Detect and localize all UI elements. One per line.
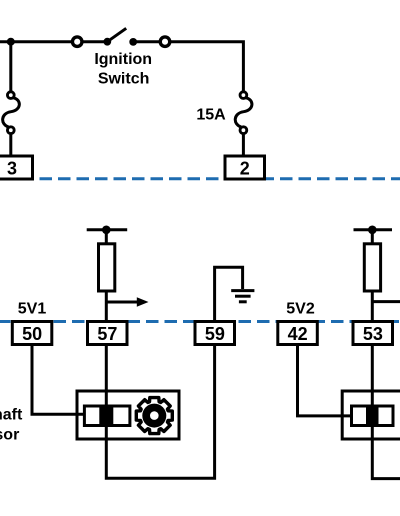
resistor R2 — [364, 244, 380, 291]
wire: resistor R2 to pin 53 — [371, 291, 374, 322]
wire: power rail to resistor R2 — [371, 230, 374, 245]
svg-text:53: 53 — [363, 324, 383, 344]
connector pin box 53 — [353, 322, 393, 345]
svg-text:59: 59 — [205, 324, 225, 344]
svg-text:5V2: 5V2 — [286, 301, 315, 318]
fuse F2 bottom circle — [240, 127, 247, 134]
ignition switch pole dot right — [129, 38, 137, 46]
resistor R1 — [99, 244, 115, 291]
fuse F2 squiggle — [235, 98, 252, 127]
sensor 1 element black cell — [99, 405, 113, 428]
dashed ECU boundary line row 2 — [0, 320, 400, 323]
svg-text:Sensor: Sensor — [0, 427, 19, 444]
wire: top feed from left edge to switch — [0, 40, 107, 43]
ignition switch pole dot left — [103, 38, 111, 46]
branch wire to right edge — [372, 300, 400, 303]
wire: resistor R1 to pin 57 — [105, 291, 108, 322]
power rail symbol left (bar with node) — [87, 228, 128, 231]
svg-text:42: 42 — [288, 324, 308, 344]
sensor 2 element outer — [352, 406, 394, 426]
fuse F1 top circle — [7, 92, 14, 99]
dashed ECU boundary line row 1 — [0, 177, 400, 180]
crankshaft sensor box (cut off at right edge) — [342, 391, 400, 439]
svg-text:57: 57 — [97, 324, 117, 344]
arrow branch to right from pin 57 wire — [106, 301, 138, 304]
svg-text:2: 2 — [240, 159, 250, 179]
connector pin box 2 — [225, 156, 265, 179]
gear icon — [136, 398, 172, 434]
fuse F1 bottom circle — [7, 127, 14, 134]
svg-text:Camshaft: Camshaft — [0, 407, 23, 424]
svg-text:5V1: 5V1 — [18, 301, 47, 318]
svg-text:50: 50 — [22, 324, 42, 344]
ground branch wire from pin 59 — [215, 267, 243, 322]
wire: switch to right corner and down to fuse 2 — [133, 42, 243, 92]
connector pin box 42 — [278, 322, 318, 345]
wire: pin 57 down through sensor 1, to below, right, up to pin 59 — [106, 345, 214, 479]
ground symbol — [231, 289, 254, 292]
wire: fuse 1 to connector pin 3 — [9, 134, 12, 157]
power rail symbol right (bar with node) — [354, 228, 393, 231]
sensor 1 element outer — [84, 406, 129, 426]
ignition switch blade — [107, 28, 126, 41]
wire: pin 53 down through sensor 2, to below and right edge — [372, 345, 400, 479]
wire: pin 42 down and right to sensor 2 — [298, 345, 355, 416]
connector pin box 3 — [0, 156, 33, 179]
camshaft sensor box — [77, 391, 179, 439]
sensor 2 element black cell — [366, 405, 379, 428]
ignition switch contact (open circle right) — [160, 37, 170, 47]
node: junction dot — [7, 38, 15, 46]
svg-text:15A: 15A — [196, 106, 226, 123]
wire: power rail to resistor R1 — [105, 230, 108, 245]
wire: junction down to fuse 1 — [9, 42, 12, 92]
fuse F1 squiggle — [3, 98, 20, 127]
svg-text:Ignition: Ignition — [94, 51, 152, 68]
wire: fuse 2 to connector pin 2 — [242, 134, 245, 157]
connector pin box 57 — [88, 322, 128, 345]
svg-text:Switch: Switch — [98, 71, 150, 88]
connector pin box 59 — [195, 322, 235, 345]
connector pin box 50 — [12, 322, 52, 345]
ignition switch contact (open circle left) — [72, 37, 82, 47]
svg-text:3: 3 — [7, 159, 17, 179]
wire: pin 50 down and right to sensor 1 — [32, 345, 88, 415]
fuse F2 top circle — [240, 92, 247, 99]
